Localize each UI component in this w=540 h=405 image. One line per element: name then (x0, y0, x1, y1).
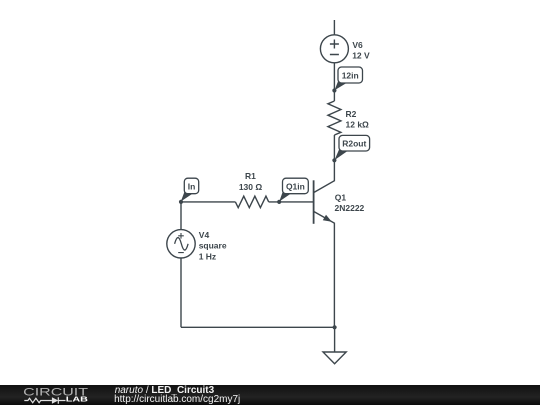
svg-text:V4: V4 (199, 230, 210, 240)
svg-text:12 V: 12 V (352, 50, 370, 60)
svg-text:12 kΩ: 12 kΩ (346, 119, 370, 129)
svg-text:LAB: LAB (66, 395, 89, 404)
svg-text:1 Hz: 1 Hz (199, 251, 216, 261)
svg-text:http://circuitlab.com/cg2my7j: http://circuitlab.com/cg2my7j (114, 394, 240, 405)
svg-text:Q1in: Q1in (286, 181, 305, 191)
svg-text:Q1: Q1 (335, 193, 347, 203)
svg-text:130 Ω: 130 Ω (239, 182, 263, 192)
svg-text:R1: R1 (245, 171, 256, 181)
svg-text:square: square (199, 241, 227, 251)
svg-text:R2: R2 (346, 109, 357, 119)
svg-text:R2out: R2out (342, 139, 366, 149)
svg-text:2N2222: 2N2222 (335, 203, 365, 213)
svg-text:12in: 12in (342, 70, 359, 80)
svg-text:In: In (188, 181, 196, 191)
svg-text:V6: V6 (352, 40, 363, 50)
